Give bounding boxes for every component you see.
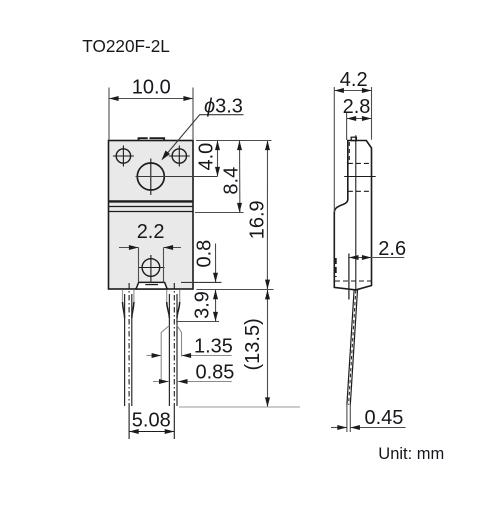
- dim 16.9: [266, 141, 268, 290]
- lead left front: [123, 283, 134, 406]
- top tab front view: [139, 138, 165, 140]
- dim 4.0: [217, 141, 219, 177]
- mounting hole left: [113, 146, 134, 167]
- side hidden mark lower left: [335, 258, 337, 277]
- notch top extension line: [181, 281, 222, 283]
- svg-text:10.0: 10.0: [132, 77, 171, 99]
- svg-text:8.4: 8.4: [221, 167, 243, 195]
- dim 8.4: [239, 141, 241, 213]
- svg-text:TO220F-2L: TO220F-2L: [82, 36, 170, 56]
- groove lines: [109, 201, 194, 211]
- dim 4.2: [334, 87, 371, 212]
- svg-text:3.9: 3.9: [192, 291, 214, 319]
- dim 2.2: [119, 248, 181, 283]
- dim 0.45: [331, 405, 406, 432]
- svg-text:Unit: mm: Unit: mm: [378, 445, 444, 463]
- side body outline: [334, 141, 371, 290]
- side hidden line upper left: [348, 142, 350, 163]
- dim 5.08: [129, 406, 174, 439]
- lower hole: [139, 255, 165, 282]
- mounting hole right: [169, 146, 190, 167]
- side hole centerline: [344, 176, 376, 178]
- dim 2.6: [349, 254, 404, 300]
- dim 10.0: [109, 88, 193, 140]
- svg-text:16.9: 16.9: [247, 200, 269, 239]
- body bottom edge under notch: [135, 288, 168, 290]
- dim 0.8: [215, 244, 217, 283]
- side lead: [347, 290, 358, 405]
- groove extension line: [195, 212, 244, 214]
- dim 1.35: [147, 326, 232, 380]
- svg-text:2.6: 2.6: [378, 238, 406, 260]
- svg-text:ϕ3.3: ϕ3.3: [204, 96, 243, 118]
- svg-text:2.2: 2.2: [137, 221, 165, 243]
- svg-text:4.0: 4.0: [196, 143, 218, 171]
- side centerline vertical: [355, 135, 357, 290]
- package body front view: [109, 141, 194, 290]
- bottom notch: [136, 282, 167, 289]
- big hole horizontal centerline (extends to 4.0 dim): [136, 176, 218, 178]
- side hidden line h2: [348, 190, 370, 192]
- svg-text:0.8: 0.8: [194, 240, 216, 268]
- side tab: [351, 137, 356, 140]
- lead bottom extension line: [179, 406, 300, 408]
- lead taper extension line: [176, 321, 219, 323]
- dim 3.9: [215, 290, 217, 322]
- dim phi3.3 leader: [163, 115, 244, 159]
- side hidden line bottom: [335, 280, 371, 282]
- svg-text:0.45: 0.45: [365, 407, 404, 429]
- lead right front: [167, 283, 180, 406]
- top extension line (body top, right side): [196, 140, 272, 142]
- svg-text:5.08: 5.08: [132, 410, 171, 432]
- dim 2.8: [347, 112, 372, 140]
- side hidden line h1: [348, 162, 370, 164]
- svg-text:1.35: 1.35: [194, 336, 233, 358]
- big hole phi3.3: [137, 159, 164, 196]
- body bottom extension line: [197, 289, 274, 291]
- svg-text:0.85: 0.85: [196, 362, 235, 384]
- svg-text:2.8: 2.8: [343, 96, 371, 118]
- svg-text:4.2: 4.2: [340, 69, 368, 91]
- notch inner line: [145, 284, 158, 286]
- dim 0.85: [153, 381, 232, 383]
- dim (13.5): [267, 290, 269, 407]
- svg-text:(13.5): (13.5): [242, 318, 264, 370]
